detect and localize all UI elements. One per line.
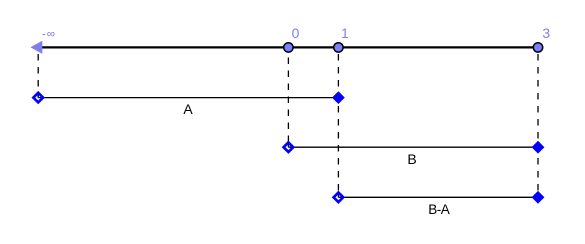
- open diamond endpoint of B at 0: [284, 142, 294, 152]
- stub of drop line inside open diamond of B-A: [337, 193, 339, 198]
- number line: [36, 46, 538, 48]
- svg-text:- ∞: - ∞: [42, 28, 55, 40]
- segment A: [38, 97, 338, 99]
- point 3: [533, 43, 542, 52]
- open diamond endpoint of B-A at 1: [334, 193, 344, 203]
- dashed drop line at -infinity (x=38.2): [37, 54, 39, 98]
- svg-text:B-A: B-A: [428, 202, 450, 217]
- dashed drop line at 3 (x=538): [537, 54, 539, 197]
- closed diamond endpoint of B at 3: [532, 141, 545, 154]
- segment B-A: [338, 196, 538, 198]
- stub of drop line inside open diamond of A: [37, 93, 39, 98]
- svg-text:1: 1: [341, 25, 349, 41]
- svg-text:3: 3: [542, 25, 550, 41]
- stub of drop line inside open diamond of B: [287, 143, 289, 148]
- closed diamond endpoint of B-A at 3: [532, 191, 545, 204]
- point 1: [334, 43, 343, 52]
- point 0: [284, 43, 293, 52]
- svg-text:B: B: [407, 151, 416, 167]
- dashed drop line at 0 (x=288.4): [287, 58, 289, 148]
- svg-text:A: A: [183, 101, 193, 117]
- closed diamond endpoint of A at 1: [332, 91, 345, 104]
- segment B: [288, 146, 538, 148]
- dashed drop line at 1 (x=338.4): [337, 54, 339, 197]
- arrowhead to -infinity: [30, 41, 42, 54]
- open diamond endpoint of A at -infinity: [33, 93, 43, 103]
- svg-text:0: 0: [292, 25, 300, 41]
